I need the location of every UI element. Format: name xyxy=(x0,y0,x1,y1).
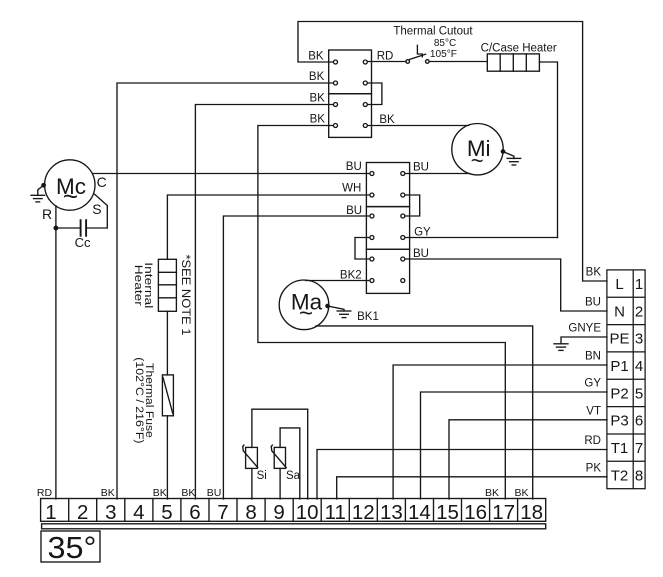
node junction at R xyxy=(54,226,58,230)
svg-text:BK1: BK1 xyxy=(357,311,379,323)
svg-text:*SEE NOTE 1: *SEE NOTE 1 xyxy=(179,255,193,336)
svg-text:BK: BK xyxy=(514,487,528,499)
sensor Sa (thermistor) xyxy=(271,445,286,468)
wire GNYE: terminal PE to ground xyxy=(561,337,607,344)
svg-text:12: 12 xyxy=(352,501,375,524)
svg-text:GY: GY xyxy=(414,226,431,238)
svg-text:Si: Si xyxy=(257,470,267,482)
wire RD: motor Mc terminal R to bottom terminal 1 xyxy=(55,206,57,499)
svg-text:BK: BK xyxy=(101,487,115,499)
wire: switch to C/Case heater xyxy=(429,61,487,63)
jumper X2 right pins rows 2-3 xyxy=(403,195,420,216)
pins of connector X2 xyxy=(370,172,405,283)
svg-text:VT: VT xyxy=(586,405,601,417)
svg-text:BU: BU xyxy=(346,205,362,217)
svg-text:4: 4 xyxy=(133,501,144,524)
svg-text:1: 1 xyxy=(635,276,643,293)
svg-text:35°: 35° xyxy=(48,530,97,565)
terminal strip X3 (bottom, 1-18) xyxy=(41,499,546,522)
svg-text:R: R xyxy=(42,206,52,222)
svg-text:Thermal Cutout: Thermal Cutout xyxy=(393,26,473,38)
svg-text:C/Case Heater: C/Case Heater xyxy=(481,43,557,55)
wire GY: X2 row4 right to heater branch xyxy=(403,237,558,239)
svg-text:N: N xyxy=(614,303,625,320)
wire: sensor Sa to bottom terminal 9 xyxy=(279,468,281,499)
svg-text:BK: BK xyxy=(379,114,395,126)
wire: thermal fuse to bottom terminal 5 xyxy=(166,416,168,499)
wire GY: terminal P2 to bottom terminal 14 xyxy=(421,392,608,499)
wire BN: terminal P1 to bottom terminal 13 xyxy=(393,365,607,499)
wire BU: motor Mc terminal C to X2 row1 left xyxy=(93,173,372,175)
connector X1 (top relay block) xyxy=(329,50,372,137)
label SEE NOTE 1 (vertical) xyxy=(179,255,193,336)
svg-text:L: L xyxy=(615,276,623,293)
svg-text:P1: P1 xyxy=(610,358,628,375)
wire: internal heater to thermal fuse xyxy=(166,311,168,375)
svg-text:BK: BK xyxy=(310,93,326,105)
sensor Si (thermistor) xyxy=(243,445,258,468)
jumper X2 left pins rows 4-5 xyxy=(355,238,372,260)
svg-text:RD: RD xyxy=(377,50,394,62)
svg-text:BK: BK xyxy=(586,267,602,279)
pins of connector X1 xyxy=(334,60,368,128)
wire RD: X1 pin row1 right to thermal cutout xyxy=(365,61,406,63)
wire: sensor Si to bottom terminal 10 xyxy=(252,409,308,499)
svg-text:8: 8 xyxy=(245,501,256,524)
svg-text:3: 3 xyxy=(105,501,116,524)
svg-text:11: 11 xyxy=(325,501,346,524)
35 degree box xyxy=(41,531,100,562)
svg-text:16: 16 xyxy=(464,501,487,524)
svg-text:9: 9 xyxy=(273,501,284,524)
svg-text:BK: BK xyxy=(308,50,324,62)
svg-text:~: ~ xyxy=(471,148,484,173)
motor Mi xyxy=(452,124,503,175)
svg-text:Cc: Cc xyxy=(75,235,91,250)
svg-text:BU: BU xyxy=(585,297,601,309)
svg-text:P3: P3 xyxy=(610,413,628,430)
svg-text:BK: BK xyxy=(309,71,325,83)
wire: heater output down to GY node xyxy=(539,62,557,238)
svg-text:BK: BK xyxy=(310,114,326,126)
wire BK: X1 row2 left to bottom terminal 3 xyxy=(117,83,336,499)
svg-text:Heater: Heater xyxy=(132,265,144,306)
svg-text:BU: BU xyxy=(346,161,362,173)
svg-text:15: 15 xyxy=(436,501,459,524)
svg-text:6: 6 xyxy=(635,413,643,430)
svg-text:7: 7 xyxy=(217,501,228,524)
svg-text:5: 5 xyxy=(161,501,172,524)
jumper X1 right pins rows 2-3 xyxy=(365,83,382,105)
motor Mc xyxy=(45,160,95,210)
wire PK: terminal T2 to bottom terminal 11 xyxy=(337,477,607,499)
svg-text:GY: GY xyxy=(584,378,601,390)
svg-text:1: 1 xyxy=(45,501,56,524)
svg-text:BK: BK xyxy=(485,487,499,499)
svg-text:~: ~ xyxy=(63,181,78,211)
svg-text:5: 5 xyxy=(635,385,643,402)
svg-text:RD: RD xyxy=(37,487,53,499)
wire BK: X1 row4 left to bottom terminal 17 xyxy=(258,126,505,500)
ground at Mi xyxy=(501,150,520,165)
ground at Ma xyxy=(326,304,351,317)
svg-text:105°F: 105°F xyxy=(430,49,457,60)
svg-text:WH: WH xyxy=(342,183,361,195)
heater R1 C/Case Heater xyxy=(487,54,539,71)
svg-text:T2: T2 xyxy=(611,467,629,484)
wire BU: X2 row3 left to bottom terminal 7 xyxy=(223,216,372,499)
svg-text:BK2: BK2 xyxy=(340,269,362,281)
svg-text:C: C xyxy=(97,174,107,190)
svg-text:Sa: Sa xyxy=(286,470,301,482)
svg-text:P2: P2 xyxy=(610,385,628,402)
capacitor Cc xyxy=(81,220,87,236)
terminal strip numbers xyxy=(45,501,543,524)
svg-text:PE: PE xyxy=(609,331,629,348)
svg-text:BK: BK xyxy=(153,487,167,499)
connector X2 (middle relay block) xyxy=(366,163,409,294)
terminal block X4 labels xyxy=(609,276,643,484)
svg-text:14: 14 xyxy=(408,501,431,524)
label Internal Heater (vertical) xyxy=(132,262,154,308)
wire RD: terminal T1 to bottom terminal 10 xyxy=(317,450,607,500)
wire VT: terminal P3 to bottom terminal 15 xyxy=(449,420,607,499)
svg-text:GNYE: GNYE xyxy=(568,323,601,335)
label motor Ma xyxy=(291,290,323,327)
svg-text:BU: BU xyxy=(413,161,429,173)
wire BU: X2 row5 right to terminal N xyxy=(403,259,607,311)
wire BU: X2 row1 right to motor Mi xyxy=(403,173,470,175)
terminal strip lower bar xyxy=(42,524,546,529)
svg-text:S: S xyxy=(92,201,101,217)
svg-text:BK: BK xyxy=(181,487,195,499)
svg-text:7: 7 xyxy=(635,440,643,457)
svg-text:BN: BN xyxy=(585,351,601,363)
terminal block X4 (right) xyxy=(607,270,645,489)
wire: R junction to capacitor Cc xyxy=(56,227,80,229)
svg-text:PK: PK xyxy=(586,462,602,474)
svg-text:13: 13 xyxy=(380,501,403,524)
svg-text:BU: BU xyxy=(207,487,222,499)
wire: sensor Sa to bottom terminal 10 xyxy=(280,428,300,499)
svg-text:4: 4 xyxy=(635,358,643,375)
ground at PE xyxy=(554,344,568,351)
label motor Mc xyxy=(56,174,86,211)
svg-text:6: 6 xyxy=(189,501,200,524)
svg-text:~: ~ xyxy=(299,300,313,327)
svg-text:2: 2 xyxy=(635,303,643,320)
wire BK1: motor Ma to bottom terminal 18 xyxy=(316,326,533,499)
svg-text:18: 18 xyxy=(520,501,543,524)
thermal fuse F1 xyxy=(162,375,173,416)
wire BK2: motor Ma top to X2 row6 left xyxy=(306,280,372,282)
svg-text:BU: BU xyxy=(413,248,429,260)
svg-text:RD: RD xyxy=(584,435,601,447)
svg-text:10: 10 xyxy=(296,501,319,524)
wire BK: X1 row3 left to bottom terminal 6 xyxy=(195,105,335,500)
wire BK: X1 row4 right to motor Mi xyxy=(365,125,468,127)
wire WH: X2 row2 left to internal heater xyxy=(167,195,372,259)
wire BK net: connector X1 pin1 to terminal L (top frame) xyxy=(298,22,607,282)
svg-text:85°C: 85°C xyxy=(434,38,456,49)
thermal cutout switch S1 xyxy=(406,45,429,63)
svg-text:3: 3 xyxy=(635,331,643,348)
svg-text:(102°C / 216°F): (102°C / 216°F) xyxy=(133,357,145,443)
svg-text:8: 8 xyxy=(635,467,643,484)
wire: sensor Si to bottom terminal 8 xyxy=(251,468,253,499)
wire: capacitor Cc to motor Mc terminal S xyxy=(87,194,108,228)
svg-text:T1: T1 xyxy=(611,440,629,457)
svg-text:2: 2 xyxy=(77,501,88,524)
motor Ma xyxy=(279,280,329,330)
svg-text:17: 17 xyxy=(492,501,515,524)
ground at Mc xyxy=(31,184,45,202)
internal heater R2 xyxy=(158,259,176,311)
label motor Mi xyxy=(467,136,491,173)
label Thermal Fuse (vertical) xyxy=(133,357,155,443)
